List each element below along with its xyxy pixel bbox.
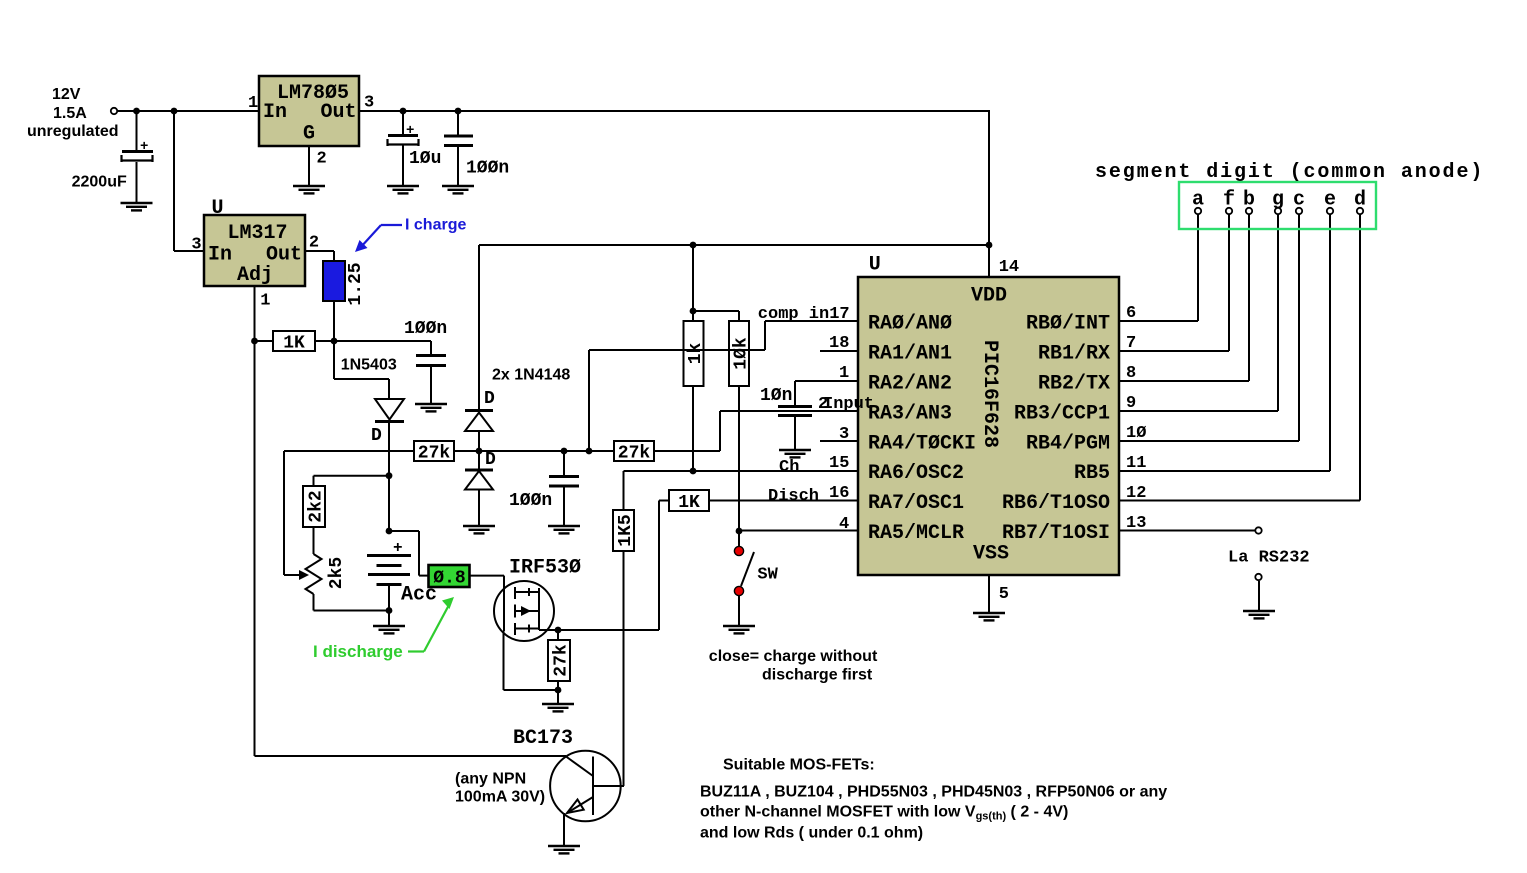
svg-text:+: + bbox=[140, 139, 148, 155]
svg-text:RA5/MCLR: RA5/MCLR bbox=[868, 522, 964, 545]
svg-text:6: 6 bbox=[1126, 304, 1136, 323]
svg-text:1Ø: 1Ø bbox=[1126, 424, 1146, 443]
svg-text:1: 1 bbox=[260, 292, 270, 311]
svg-text:U: U bbox=[869, 254, 881, 277]
svg-text:comp in17: comp in17 bbox=[758, 305, 850, 324]
svg-text:13: 13 bbox=[1126, 514, 1146, 533]
svg-text:RAØ/ANØ: RAØ/ANØ bbox=[868, 313, 952, 336]
svg-text:3: 3 bbox=[839, 425, 849, 444]
svg-text:1: 1 bbox=[248, 94, 258, 113]
svg-text:VDD: VDD bbox=[971, 285, 1007, 308]
svg-text:1Øu: 1Øu bbox=[409, 149, 441, 169]
svg-text:RA3/AN3: RA3/AN3 bbox=[868, 403, 952, 426]
svg-text:RA7/OSC1: RA7/OSC1 bbox=[868, 492, 964, 515]
svg-text:7: 7 bbox=[1126, 334, 1136, 353]
svg-text:D: D bbox=[371, 426, 382, 446]
svg-text:RB7/T1OSI: RB7/T1OSI bbox=[1002, 522, 1110, 545]
svg-text:1Øk: 1Øk bbox=[732, 337, 752, 370]
svg-text:5: 5 bbox=[999, 585, 1009, 604]
svg-text:1k: 1k bbox=[686, 343, 706, 365]
svg-text:2x 1N4148: 2x 1N4148 bbox=[492, 367, 570, 384]
svg-text:16: 16 bbox=[829, 484, 849, 503]
svg-text:a: a bbox=[1192, 189, 1204, 212]
svg-text:e: e bbox=[1324, 189, 1336, 212]
svg-text:27k: 27k bbox=[418, 444, 451, 464]
svg-text:RA1/AN1: RA1/AN1 bbox=[868, 343, 952, 366]
svg-text:2: 2 bbox=[317, 150, 327, 169]
svg-text:RB5: RB5 bbox=[1074, 462, 1110, 485]
svg-text:RB4/PGM: RB4/PGM bbox=[1026, 433, 1110, 456]
svg-text:1K: 1K bbox=[678, 493, 700, 513]
svg-text:1.25: 1.25 bbox=[346, 262, 366, 305]
svg-text:D: D bbox=[484, 389, 495, 409]
svg-text:RA2/AN2: RA2/AN2 bbox=[868, 373, 952, 396]
svg-text:2k5: 2k5 bbox=[327, 557, 347, 589]
svg-text:d: d bbox=[1354, 189, 1366, 212]
svg-text:RB6/T1OSO: RB6/T1OSO bbox=[1002, 492, 1110, 515]
svg-text:RB2/TX: RB2/TX bbox=[1038, 373, 1110, 396]
svg-text:2: 2 bbox=[309, 234, 319, 253]
svg-text:BC173: BC173 bbox=[513, 727, 573, 750]
svg-text:D: D bbox=[485, 450, 496, 470]
svg-text:RA6/OSC2: RA6/OSC2 bbox=[868, 462, 964, 485]
svg-text:+: + bbox=[406, 123, 414, 139]
svg-text:RB3/CCP1: RB3/CCP1 bbox=[1014, 403, 1110, 426]
svg-text:1: 1 bbox=[839, 364, 849, 383]
svg-text:1.5A: 1.5A bbox=[53, 105, 87, 122]
svg-text:4: 4 bbox=[839, 515, 849, 534]
svg-text:c: c bbox=[1293, 189, 1305, 212]
svg-text:f: f bbox=[1223, 189, 1235, 212]
svg-text:discharge first: discharge first bbox=[762, 667, 873, 684]
svg-text:IRF53Ø: IRF53Ø bbox=[509, 557, 581, 580]
svg-text:I charge: I charge bbox=[405, 217, 466, 234]
svg-text:U: U bbox=[212, 197, 224, 220]
svg-text:+: + bbox=[393, 539, 403, 557]
svg-text:G: G bbox=[303, 123, 315, 146]
svg-text:12V: 12V bbox=[52, 86, 81, 103]
svg-text:VSS: VSS bbox=[973, 543, 1009, 566]
svg-text:RA4/TØCKI: RA4/TØCKI bbox=[868, 433, 976, 456]
svg-text:9: 9 bbox=[1126, 394, 1136, 413]
svg-text:and low Rds ( under 0.1 ohm): and low Rds ( under 0.1 ohm) bbox=[700, 825, 923, 842]
svg-text:100mA 30V): 100mA 30V) bbox=[455, 789, 545, 806]
svg-text:11: 11 bbox=[1126, 454, 1146, 473]
svg-text:(any NPN: (any NPN bbox=[455, 771, 526, 788]
svg-text:27k: 27k bbox=[552, 644, 572, 677]
svg-text:3: 3 bbox=[191, 236, 201, 255]
svg-text:Ø.8: Ø.8 bbox=[433, 569, 465, 589]
svg-text:1Øn: 1Øn bbox=[760, 386, 792, 406]
svg-text:In: In bbox=[263, 101, 287, 124]
svg-text:3: 3 bbox=[364, 94, 374, 113]
svg-text:Acc: Acc bbox=[401, 584, 437, 607]
svg-text:1ØØn: 1ØØn bbox=[404, 319, 447, 339]
svg-text:18: 18 bbox=[829, 334, 849, 353]
svg-text:RBØ/INT: RBØ/INT bbox=[1026, 313, 1110, 336]
svg-text:La RS232: La RS232 bbox=[1228, 549, 1310, 568]
svg-text:I discharge: I discharge bbox=[313, 642, 403, 661]
svg-text:1K: 1K bbox=[283, 334, 305, 354]
svg-text:Disch: Disch bbox=[768, 487, 819, 506]
svg-text:1ØØn: 1ØØn bbox=[509, 491, 552, 511]
svg-text:other N-channel MOSFET with lo: other N-channel MOSFET with low Vgs(th) … bbox=[700, 804, 1068, 823]
svg-text:b: b bbox=[1243, 189, 1255, 212]
svg-text:2200uF: 2200uF bbox=[72, 174, 127, 191]
svg-text:Input: Input bbox=[823, 395, 874, 414]
svg-text:2k2: 2k2 bbox=[307, 490, 327, 522]
svg-text:14: 14 bbox=[999, 258, 1019, 277]
svg-text:Suitable MOS-FETs:: Suitable MOS-FETs: bbox=[723, 757, 875, 774]
svg-text:LM317: LM317 bbox=[227, 222, 287, 245]
svg-text:12: 12 bbox=[1126, 484, 1146, 503]
svg-text:Out: Out bbox=[321, 101, 357, 124]
svg-text:Ch: Ch bbox=[779, 458, 799, 477]
svg-text:SW: SW bbox=[757, 566, 778, 585]
svg-text:RB1/RX: RB1/RX bbox=[1038, 343, 1110, 366]
svg-text:1N5403: 1N5403 bbox=[341, 357, 397, 374]
svg-text:15: 15 bbox=[829, 454, 849, 473]
svg-text:close= charge without: close= charge without bbox=[709, 648, 878, 665]
svg-text:27k: 27k bbox=[618, 444, 651, 464]
svg-text:BUZ11A , BUZ104 , PHD55N03 , P: BUZ11A , BUZ104 , PHD55N03 , PHD45N03 , … bbox=[700, 784, 1167, 801]
svg-text:segment digit (common anode): segment digit (common anode) bbox=[1095, 161, 1484, 184]
svg-text:g: g bbox=[1272, 189, 1284, 212]
svg-text:Adj: Adj bbox=[237, 264, 273, 287]
svg-text:1K5: 1K5 bbox=[616, 514, 636, 546]
svg-text:In: In bbox=[208, 244, 232, 267]
svg-text:1ØØn: 1ØØn bbox=[466, 159, 509, 179]
svg-text:8: 8 bbox=[1126, 364, 1136, 383]
svg-text:PIC16F628: PIC16F628 bbox=[978, 340, 1001, 448]
svg-text:unregulated: unregulated bbox=[27, 123, 119, 140]
